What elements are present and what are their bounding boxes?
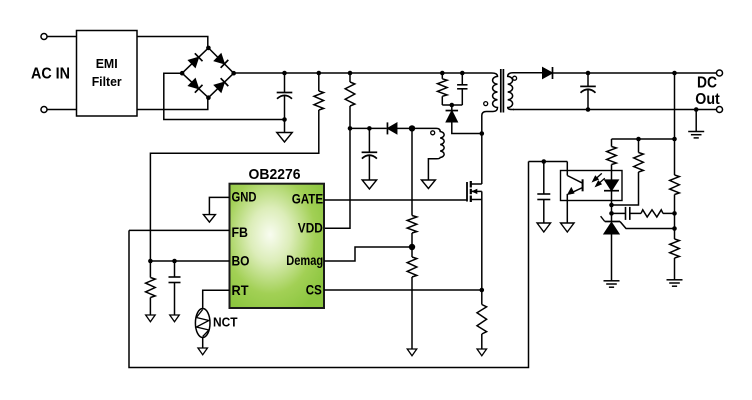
wire output cap top lead (587, 73, 589, 86)
wire clamp C top lead (461, 73, 463, 85)
svg-text:RT: RT (232, 282, 249, 298)
wire bulk cap top lead (284, 73, 286, 93)
wire VDD node to diode (350, 127, 387, 129)
wire startup resistor to VDD node (349, 106, 351, 128)
AC input terminal top (41, 33, 47, 39)
svg-text:GATE: GATE (292, 191, 324, 207)
wire comp cap lead (612, 212, 626, 214)
capacitor BO filter (169, 276, 181, 278)
ground bulk cap (277, 133, 293, 143)
node bridge right (231, 71, 236, 76)
optocoupler phototransistor (582, 179, 584, 191)
wire GND pin (209, 197, 229, 214)
resistor BO upper (314, 91, 324, 110)
node output cap bottom (586, 107, 591, 112)
svg-text:FB: FB (232, 224, 249, 240)
wire GATE pin (324, 199, 467, 201)
transistor Q1 MOSFET (466, 182, 468, 202)
wire divider mid (674, 195, 676, 240)
resistor opto bias (634, 153, 644, 173)
wire sense resistor top lead (481, 290, 483, 305)
wire FB filter cap top lead (543, 162, 545, 195)
svg-text:VDD: VDD (298, 220, 323, 236)
node FB filter cap tap (542, 159, 547, 164)
AC input terminal bottom (41, 106, 47, 112)
wire sense resistor bottom lead (481, 334, 483, 349)
wire clamp R bottom lead (441, 96, 443, 105)
wire AC bottom to EMI (47, 109, 77, 111)
resistor Demag upper (407, 216, 417, 234)
transformer core (500, 69, 502, 113)
svg-text:Filter: Filter (92, 74, 122, 89)
resistor divider upper (670, 175, 680, 195)
wire VDD pin route (324, 128, 350, 228)
svg-text:Demag: Demag (286, 252, 323, 268)
resistor BO lower (146, 278, 156, 298)
transformer secondary phase dot (513, 76, 517, 80)
ground Demag arrow (407, 349, 417, 356)
wire divider lower lead (674, 258, 676, 280)
diode VDD rectifier (387, 122, 397, 134)
wire clamp diode cathode lead (451, 105, 453, 110)
ground opto emitter (561, 223, 575, 232)
optocoupler LED (604, 180, 619, 191)
ground FB filter cap (537, 223, 551, 232)
ground aux winding (421, 180, 435, 189)
wire bulk ground stub (284, 120, 286, 133)
node VDD startup junction (348, 126, 353, 131)
ground NCT arrow (198, 348, 208, 355)
wire AC top to EMI (47, 36, 77, 38)
ground BO cap arrow (170, 315, 180, 322)
wire EMI top to bridge top node (137, 37, 208, 48)
transformer aux winding (412, 128, 444, 180)
regulator TL431 (605, 221, 620, 223)
transformer primary phase dot (484, 102, 488, 106)
wire opto feed line (612, 138, 675, 140)
node drain junction (480, 131, 485, 136)
resistor compensation (641, 210, 663, 217)
node compensation tap (609, 211, 614, 216)
svg-text:DC: DC (697, 75, 717, 92)
wire bridge arm bottom-right (208, 73, 233, 98)
capacitor bulk electrolytic (277, 92, 293, 94)
resistor opto LED series (607, 147, 617, 165)
node opto LED cathode junction (609, 203, 614, 208)
wire BO cap bottom lead (174, 283, 176, 316)
capacitor FB filter (537, 193, 550, 195)
wire output rail (553, 72, 720, 74)
optocoupler box (561, 171, 623, 201)
wire TL431 cathode lead (611, 205, 613, 222)
wire output cap bottom lead (587, 90, 589, 110)
node output cap top (586, 71, 591, 76)
wire clamp C bottom lead (461, 89, 463, 105)
wire Demag vertical lower (411, 233, 413, 257)
wire MOSFET drain (481, 134, 483, 185)
wire Demag pin route (324, 247, 412, 261)
DC output terminal minus (716, 106, 722, 112)
wire opto LED cathode lead (611, 191, 613, 205)
wire bulk cap bottom lead (284, 96, 286, 120)
diode bridge D3 (left to bottom) (188, 78, 202, 93)
capacitor compensation (625, 207, 627, 220)
ground CS arrow (477, 349, 487, 356)
node opto bias tap (636, 137, 641, 142)
node clamp resistor rail tap (440, 71, 445, 76)
wire comp resistor to divider (663, 212, 675, 214)
node bridge left (180, 71, 185, 76)
capacitor output electrolytic (580, 85, 596, 87)
node clamp diode tap (450, 103, 455, 108)
wire opto collector line (529, 161, 568, 163)
resistor current sense (477, 305, 487, 335)
svg-text:BO: BO (232, 253, 250, 269)
ground TL431 earth (604, 280, 620, 282)
wire TL431 ref route (620, 222, 675, 229)
node divider rail tap (672, 71, 677, 76)
ground IC GND (203, 215, 215, 223)
node bulk cap top (282, 71, 287, 76)
capacitor VDD electrolytic (362, 151, 378, 153)
node BO cap tap (172, 259, 177, 264)
wire VDD cap top lead (368, 128, 370, 152)
wire opto bias resistor route (612, 172, 639, 205)
resistor clamp (438, 79, 448, 97)
EMI filter block (77, 31, 138, 117)
svg-text:NCT: NCT (213, 316, 238, 330)
svg-text:AC IN: AC IN (31, 66, 70, 83)
ground VDD cap (362, 180, 377, 189)
wire divider upper lead (674, 73, 676, 175)
wire CS pin (324, 289, 482, 291)
wire BO sense route (150, 110, 318, 261)
wire RT pin (203, 290, 230, 309)
node startup resistor rail tap (348, 71, 353, 76)
node divider feed tap (672, 137, 677, 142)
wire bridge arm left-top (182, 48, 208, 73)
wire MOSFET source (481, 191, 483, 290)
resistor divider lower (670, 239, 680, 258)
capacitor clamp (457, 84, 467, 86)
node divider ref tap (672, 226, 677, 231)
node CS junction (480, 288, 485, 293)
wire opto bias resistor top lead (638, 139, 640, 153)
diode output rectifier (543, 67, 553, 79)
transformer aux phase dot (431, 131, 435, 135)
wire EMI bottom to bridge bottom node (137, 98, 208, 110)
transformer primary winding (482, 73, 498, 134)
svg-text:EMI: EMI (96, 56, 118, 71)
diode bridge D2 (top to right) (214, 53, 228, 68)
wire Demag vertical upper (411, 128, 413, 215)
transformer secondary winding (508, 73, 543, 110)
node aux-demag junction (409, 125, 415, 131)
wire clamp RC joint (442, 104, 462, 106)
svg-text:CS: CS (306, 282, 322, 298)
wire secondary ground stub (695, 110, 697, 132)
resistor Demag (407, 257, 417, 277)
wire Demag resistor bottom lead (411, 277, 413, 349)
wire feedback loop (129, 162, 529, 368)
diode bridge D1 (left to top) (188, 53, 202, 68)
node bridge bottom (206, 95, 211, 100)
wire BO upper resistor top lead (318, 73, 320, 91)
wire BO cap top lead (174, 261, 176, 277)
wire BO pin (150, 260, 229, 262)
wire FB pin (129, 229, 230, 231)
optocoupler light arrows (593, 173, 605, 186)
node VDD cap tap (367, 126, 372, 131)
wire comp cap to resistor (630, 212, 641, 214)
ground BO resistor arrow (146, 315, 156, 322)
node bridge top (206, 46, 211, 51)
wire BO lower resistor top lead (149, 261, 151, 278)
wire VDD diode to aux node (397, 127, 412, 129)
node BO sense rail tap (317, 71, 322, 76)
wire BO lower resistor bottom lead (149, 298, 151, 316)
wire NCT bottom lead (202, 338, 204, 349)
wire VDD cap bottom lead (368, 156, 370, 181)
wire bridge arm left-bottom (182, 73, 208, 98)
node secondary ground tap (694, 107, 699, 112)
wire FB filter cap bottom lead (543, 200, 545, 224)
wire main HV rail (234, 72, 492, 74)
node Demag junction (409, 244, 415, 250)
diode clamp (pointing up) (446, 111, 459, 123)
wire secondary return rail (513, 109, 720, 111)
DC output terminal plus (716, 70, 722, 76)
wire clamp R top lead (441, 73, 443, 79)
svg-text:Out: Out (695, 91, 720, 108)
wire clamp diode anode to drain node (452, 122, 482, 134)
node bulk cap bottom (282, 117, 287, 122)
node divider comp tap (672, 211, 677, 216)
ground divider earth (667, 279, 683, 281)
wire opto LED resistor bottom lead (611, 165, 613, 180)
resistor startup (345, 82, 355, 106)
wire bridge arm top-right (208, 48, 233, 73)
thermistor NCT (195, 309, 210, 338)
wire startup resistor top lead (349, 73, 351, 82)
svg-text:OB2276: OB2276 (249, 166, 301, 183)
node clamp cap rail tap (460, 71, 465, 76)
node BO junction (148, 259, 153, 264)
wire bridge negative to primary ground bus (164, 73, 285, 119)
svg-text:GND: GND (232, 189, 257, 205)
ground secondary earth (688, 131, 704, 133)
diode bridge D4 (bottom to right) (214, 78, 228, 93)
wire opto LED resistor top lead (611, 139, 613, 147)
